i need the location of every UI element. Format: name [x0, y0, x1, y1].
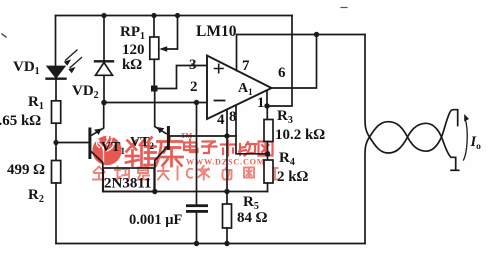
node R1/R2/VT1 base — [53, 140, 58, 145]
wire inverting input (pin 2 line) — [104, 102, 207, 104]
svg-text:120: 120 — [122, 42, 145, 58]
VD1 light arrows — [64, 50, 82, 73]
diode VD2 — [95, 61, 113, 102]
svg-text:LM10: LM10 — [196, 23, 237, 40]
svg-text:6: 6 — [278, 65, 286, 81]
minus sign — [215, 100, 225, 102]
wire pin 8 — [236, 106, 268, 154]
svg-text:2: 2 — [190, 79, 198, 95]
plus sign — [215, 64, 224, 72]
transistor VT2 — [155, 89, 169, 192]
node top rail RP1 — [151, 13, 156, 18]
wire pin 7 to V+ line — [237, 35, 366, 71]
wire VT1 base — [56, 142, 89, 144]
wire left branch top — [55, 16, 57, 67]
svg-text:R1: R1 — [28, 94, 44, 112]
resistor R3 — [264, 106, 273, 160]
potentiometer RP1 — [150, 16, 178, 89]
watermark big chars 维库 — [126, 137, 183, 167]
twisted pair loop wire A — [365, 35, 456, 171]
node top rail VD2 — [101, 13, 106, 18]
node output/V+ line — [314, 32, 319, 37]
svg-text:VT1: VT1 — [101, 140, 125, 156]
top rail — [56, 15, 293, 17]
node R3/R4/pin8 — [265, 151, 270, 156]
bottom rail — [56, 243, 365, 245]
node VD2/VT1 emitter/pin2 — [101, 100, 107, 106]
scan artifact top right — [341, 7, 347, 9]
svg-text:10.2 kΩ: 10.2 kΩ — [275, 127, 325, 143]
wire pin 3 — [154, 66, 207, 89]
svg-text:1.65 kΩ: 1.65 kΩ — [0, 113, 41, 129]
watermark www.dzsc.com — [186, 158, 265, 167]
node pin2/cap — [194, 100, 199, 105]
watermark TM — [181, 132, 193, 140]
photodiode VD1 — [47, 67, 66, 102]
wire pin1 feedback to top rail — [267, 16, 292, 107]
svg-text:4: 4 — [217, 112, 225, 128]
node RP1/VT2 emitter/pin3 — [151, 86, 158, 92]
resistor R1 — [52, 101, 61, 143]
box 2N3811 — [103, 168, 154, 192]
svg-text:84 Ω: 84 Ω — [237, 210, 268, 226]
svg-text:R4: R4 — [279, 150, 295, 168]
scan artifact left — [2, 34, 6, 37]
twisted pair loop wire B — [365, 110, 458, 244]
wire pin 1 stub — [266, 91, 268, 107]
svg-text:0.001 μF: 0.001 μF — [129, 212, 182, 228]
svg-text:7: 7 — [242, 58, 250, 74]
capacitor C1 — [186, 103, 208, 244]
resistor R4 — [264, 160, 273, 192]
twisted pair wire A end stub — [451, 169, 459, 171]
watermark row 全球最大IC采购网站 — [93, 166, 278, 180]
watermark row 电子市场网 — [184, 140, 273, 156]
svg-text:3: 3 — [189, 57, 197, 73]
wire VT2 base to pin4 line — [168, 135, 236, 137]
wire op-amp output — [272, 35, 317, 89]
current Io arrow — [464, 114, 470, 160]
svg-text:kΩ: kΩ — [122, 57, 142, 73]
svg-text:WWW.DZSC.COM: WWW.DZSC.COM — [186, 158, 265, 167]
node cap/bottom rail — [194, 241, 199, 246]
svg-text:2 kΩ: 2 kΩ — [277, 169, 309, 185]
resistor R5 — [223, 192, 232, 244]
svg-text:VD2: VD2 — [72, 83, 99, 101]
wire pin 4 — [226, 110, 228, 192]
watermark logo circle — [92, 136, 121, 165]
svg-text:499 Ω: 499 Ω — [7, 162, 45, 178]
node R5 top — [224, 189, 229, 194]
svg-text:VD1: VD1 — [13, 59, 40, 77]
svg-text:R2: R2 — [28, 187, 44, 205]
svg-text:2N3811: 2N3811 — [104, 176, 152, 192]
svg-text:Io: Io — [470, 134, 482, 152]
svg-text:R3: R3 — [277, 108, 293, 126]
node VT2 collector — [152, 189, 157, 194]
node top rail RP1 wiper — [175, 13, 180, 18]
wire VD2 top — [103, 16, 105, 61]
op-amp A1 — [207, 56, 272, 120]
node pin4/VT2 base — [224, 133, 229, 138]
wire collector rail — [103, 191, 268, 193]
transistor VT1 — [90, 103, 104, 192]
resistor R2 — [52, 143, 61, 244]
svg-text:RP1: RP1 — [120, 24, 145, 42]
node R5/bottom rail — [224, 241, 229, 246]
svg-text:1: 1 — [257, 95, 265, 111]
node pin1/R3 — [264, 103, 269, 108]
